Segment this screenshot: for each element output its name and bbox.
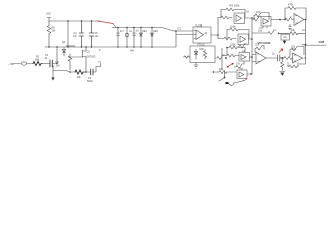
node: [251, 56, 253, 58]
ladder C7: [133, 28, 136, 48]
op-amp A3 box: [238, 34, 249, 45]
inside label: [199, 49, 204, 51]
red label out: [319, 40, 325, 44]
wire vertical x176: [176, 31, 193, 47]
svg-text:10k: 10k: [77, 75, 82, 79]
svg-text:100k: 100k: [230, 26, 236, 29]
svg-text:AW: AW: [130, 50, 135, 53]
red arrow: [279, 49, 283, 53]
wire: [13, 63, 21, 65]
U11 fb label: [291, 46, 296, 49]
node: [250, 73, 252, 75]
S3 R label: [230, 44, 236, 47]
C1 label: [44, 53, 49, 60]
transistor Q1 label: [62, 40, 75, 48]
capacitor C4 electrolytic: [79, 21, 84, 47]
stage S4 input wire: [212, 71, 218, 73]
wire: [42, 63, 50, 65]
svg-text:1M: 1M: [56, 65, 59, 68]
wire bottom chain: [70, 71, 75, 73]
wire vertical x68: [67, 21, 69, 47]
U1 top pin: [200, 25, 202, 28]
node: [67, 20, 68, 21]
red wire: [98, 21, 114, 24]
capacitor C1: [50, 60, 52, 67]
stage S1 input resistor: [218, 16, 232, 19]
stage S2 input resistor: [218, 37, 236, 40]
ladder D5: [140, 28, 143, 48]
R17 label: [258, 30, 263, 33]
ladder D6: [151, 28, 154, 48]
S2 lower resistor: [238, 44, 246, 49]
node: [81, 20, 82, 21]
A6 output wire: [271, 19, 285, 21]
A2 label: [246, 11, 250, 14]
transistor Q2: [70, 47, 86, 72]
mixer op-amp U10: [256, 52, 266, 64]
mid rail: [112, 27, 162, 29]
LED inside: [194, 49, 197, 59]
pot label: [129, 30, 132, 33]
svg-text:out: out: [319, 40, 325, 44]
svg-text:VTL5C: VTL5C: [197, 44, 205, 47]
op-amp A4 box: [239, 53, 250, 62]
svg-text:100k: 100k: [230, 44, 236, 47]
svg-text:R9 100k: R9 100k: [230, 3, 241, 7]
A5 label: [240, 68, 244, 71]
A4 label: [242, 50, 246, 53]
red LFO arrow: [227, 63, 234, 68]
svg-text:Q2: Q2: [87, 51, 91, 54]
ground: [280, 71, 285, 73]
row resistor R17: [252, 30, 276, 35]
wire: [84, 71, 91, 73]
resistor R1: [33, 62, 42, 66]
S1 R label: [230, 3, 241, 7]
node H: [305, 19, 307, 21]
stage S2 feedback resistor: [227, 28, 249, 39]
svg-text:LDR: LDR: [199, 49, 204, 51]
op-amp A2 box: [234, 13, 245, 24]
R4 label: [77, 75, 82, 79]
wire: [52, 63, 57, 65]
top rail: [49, 20, 100, 22]
node G: [278, 33, 280, 35]
U1 inner text: [205, 32, 209, 35]
U1 output wire: [211, 34, 218, 36]
input label IN: [7, 62, 15, 66]
R18 label: [288, 4, 294, 7]
optocoupler U6 box: [190, 46, 215, 63]
stage S5 input resistor: [252, 17, 261, 22]
jack J1: [21, 62, 26, 65]
op-amp U9 triangle: [294, 14, 304, 26]
U6 output resistor: [215, 55, 225, 60]
A5 red speck: [245, 79, 246, 80]
node: [69, 71, 71, 73]
svg-text:P: P: [99, 49, 101, 52]
node: [251, 38, 253, 40]
capacitor C5 electrolytic: [89, 21, 94, 47]
node B: [85, 71, 87, 73]
svg-text:+9V: +9V: [46, 12, 51, 16]
S3 fb node: [226, 47, 228, 49]
U1 triangle: [194, 30, 204, 40]
wire vertical: [56, 47, 58, 64]
op-amp U11 triangle: [293, 53, 303, 63]
C9 label: [272, 53, 275, 56]
stage S4 input resistor: [218, 71, 236, 74]
U10 feedback resistor: [255, 46, 264, 53]
stage S3 feedback resistor: [222, 46, 245, 56]
svg-text:VR FADE: VR FADE: [258, 41, 271, 45]
rail nodes: [48, 46, 152, 47]
svg-text:470k: 470k: [288, 4, 294, 7]
svg-text:10k: 10k: [258, 30, 263, 33]
node x176: [175, 30, 177, 32]
diode D1: [62, 48, 65, 57]
bus wire vertical 2: [221, 48, 223, 70]
out bus vertical: [305, 20, 307, 59]
U10 output: [266, 57, 277, 59]
op-amp U1 box: [193, 27, 211, 43]
R1 label: [35, 55, 40, 62]
node F: [279, 19, 281, 21]
U11 feedback resistor: [290, 47, 304, 57]
pot box U8: [281, 34, 290, 40]
A5 output wire: [247, 73, 252, 75]
U6 input wire: [183, 56, 190, 58]
stage S5 feedback resistor: [254, 13, 269, 20]
node: [91, 20, 92, 21]
A3 output wire: [249, 38, 253, 40]
node I: [305, 44, 307, 46]
node D: [225, 57, 227, 59]
ladder pot: [126, 28, 128, 48]
node A: [56, 63, 58, 65]
top rail nodes: [117, 27, 152, 28]
svg-text:1u: 1u: [272, 53, 275, 56]
S2 R label: [230, 26, 236, 29]
ground tap C1: [52, 66, 54, 78]
C3 label: [87, 76, 93, 83]
U1 label: [195, 25, 203, 28]
ladder C6: [117, 28, 120, 48]
svg-text:Q1: Q1: [62, 40, 66, 44]
U6 ground: [194, 63, 198, 69]
svg-text:10k: 10k: [236, 63, 241, 66]
power +9V: [46, 12, 51, 16]
svg-text:4n7: 4n7: [120, 30, 125, 33]
U6 label: [197, 44, 205, 47]
C6 label: [120, 30, 125, 33]
wire: [219, 71, 225, 81]
R2 row label: [291, 29, 296, 32]
slope wire: [162, 28, 193, 32]
svg-text:IC1: IC1: [177, 28, 182, 31]
wire hook diagonal: [229, 80, 246, 85]
svg-text:NE1: NE1: [142, 30, 147, 33]
Q2 label: [87, 51, 96, 59]
A2 output wire: [245, 17, 253, 19]
input resistor R23: [284, 57, 293, 60]
svg-text:.01: .01: [44, 56, 48, 60]
resistor R3 vertical: [47, 21, 51, 47]
bus node: [217, 34, 219, 36]
resistor R2 vertical: [68, 54, 72, 70]
lower rail: [45, 46, 176, 48]
svg-text:10k: 10k: [219, 68, 224, 71]
output wire: [304, 19, 306, 21]
S4 R label: [219, 68, 224, 71]
node: [251, 17, 253, 19]
C7 label: [136, 30, 139, 33]
node J: [281, 57, 283, 59]
label above op-amp input: [177, 28, 182, 31]
S3 input resistor: [227, 54, 239, 57]
resistor R21 vertical: [281, 58, 284, 70]
svg-text:→IN≈: →IN≈: [7, 62, 15, 66]
rail small text: [99, 49, 135, 53]
stage S1 feedback resistor: [221, 8, 245, 18]
C4 label: [73, 32, 78, 38]
wire stub from bus: [299, 58, 306, 64]
wire: [93, 63, 101, 72]
wire: [113, 24, 116, 28]
U11 output wire: [304, 57, 307, 59]
svg-text:2N3904: 2N3904: [66, 44, 76, 48]
svg-text:47u: 47u: [73, 35, 78, 38]
S5 R label: [256, 11, 261, 14]
svg-text:A2: A2: [246, 11, 250, 14]
svg-text:2N7000: 2N7000: [87, 56, 96, 59]
node: [284, 19, 286, 21]
D5 label: [142, 30, 147, 33]
svg-text:1u: 1u: [129, 30, 132, 33]
capacitor C9: [278, 55, 285, 61]
bus wire vertical: [217, 18, 219, 39]
node E: [224, 77, 226, 79]
small cap below U9: [289, 24, 292, 30]
svg-text:10u: 10u: [95, 35, 100, 38]
small ticks: [302, 30, 306, 45]
LDR inside: [204, 50, 207, 59]
svg-text:A1: A1: [205, 32, 209, 35]
C5 label: [95, 32, 100, 38]
svg-text:68k: 68k: [35, 58, 40, 62]
small label below: [292, 48, 297, 51]
capacitor C3: [91, 69, 93, 75]
svg-text:TL072: TL072: [195, 25, 203, 28]
small label: [99, 61, 102, 64]
svg-text:n0: n0: [136, 30, 139, 33]
wire to bus: [279, 32, 291, 34]
input resistor R19: [285, 17, 294, 22]
R3 label: [52, 26, 56, 33]
feedback resistor R18: [285, 7, 306, 20]
red label VR FADE: [258, 41, 271, 45]
S3 lower resistor: [234, 62, 244, 69]
D6 label: [153, 30, 158, 33]
op-amp A5 box: [237, 70, 247, 79]
S3 lower R label: [236, 63, 241, 66]
pot arrow down: [284, 39, 286, 42]
A4 output wire: [250, 56, 253, 58]
U10 fb label: [255, 44, 260, 47]
resistor R4: [75, 70, 84, 74]
wire branch: [53, 71, 70, 73]
U10 input wires: [252, 55, 256, 62]
svg-text:560p: 560p: [87, 79, 93, 83]
lower loop resistor R25: [288, 63, 298, 69]
out wire: [306, 44, 326, 46]
wire: [27, 63, 33, 65]
bus wire vertical 3: [251, 18, 253, 74]
R2 labels: [56, 61, 60, 68]
node C blob: [225, 82, 229, 84]
svg-text:NE2: NE2: [153, 30, 158, 33]
row resistor 2: [290, 32, 305, 35]
op-amp A6 box: [261, 17, 271, 27]
svg-text:1M: 1M: [52, 29, 56, 33]
A6 pins below: [259, 26, 267, 28]
